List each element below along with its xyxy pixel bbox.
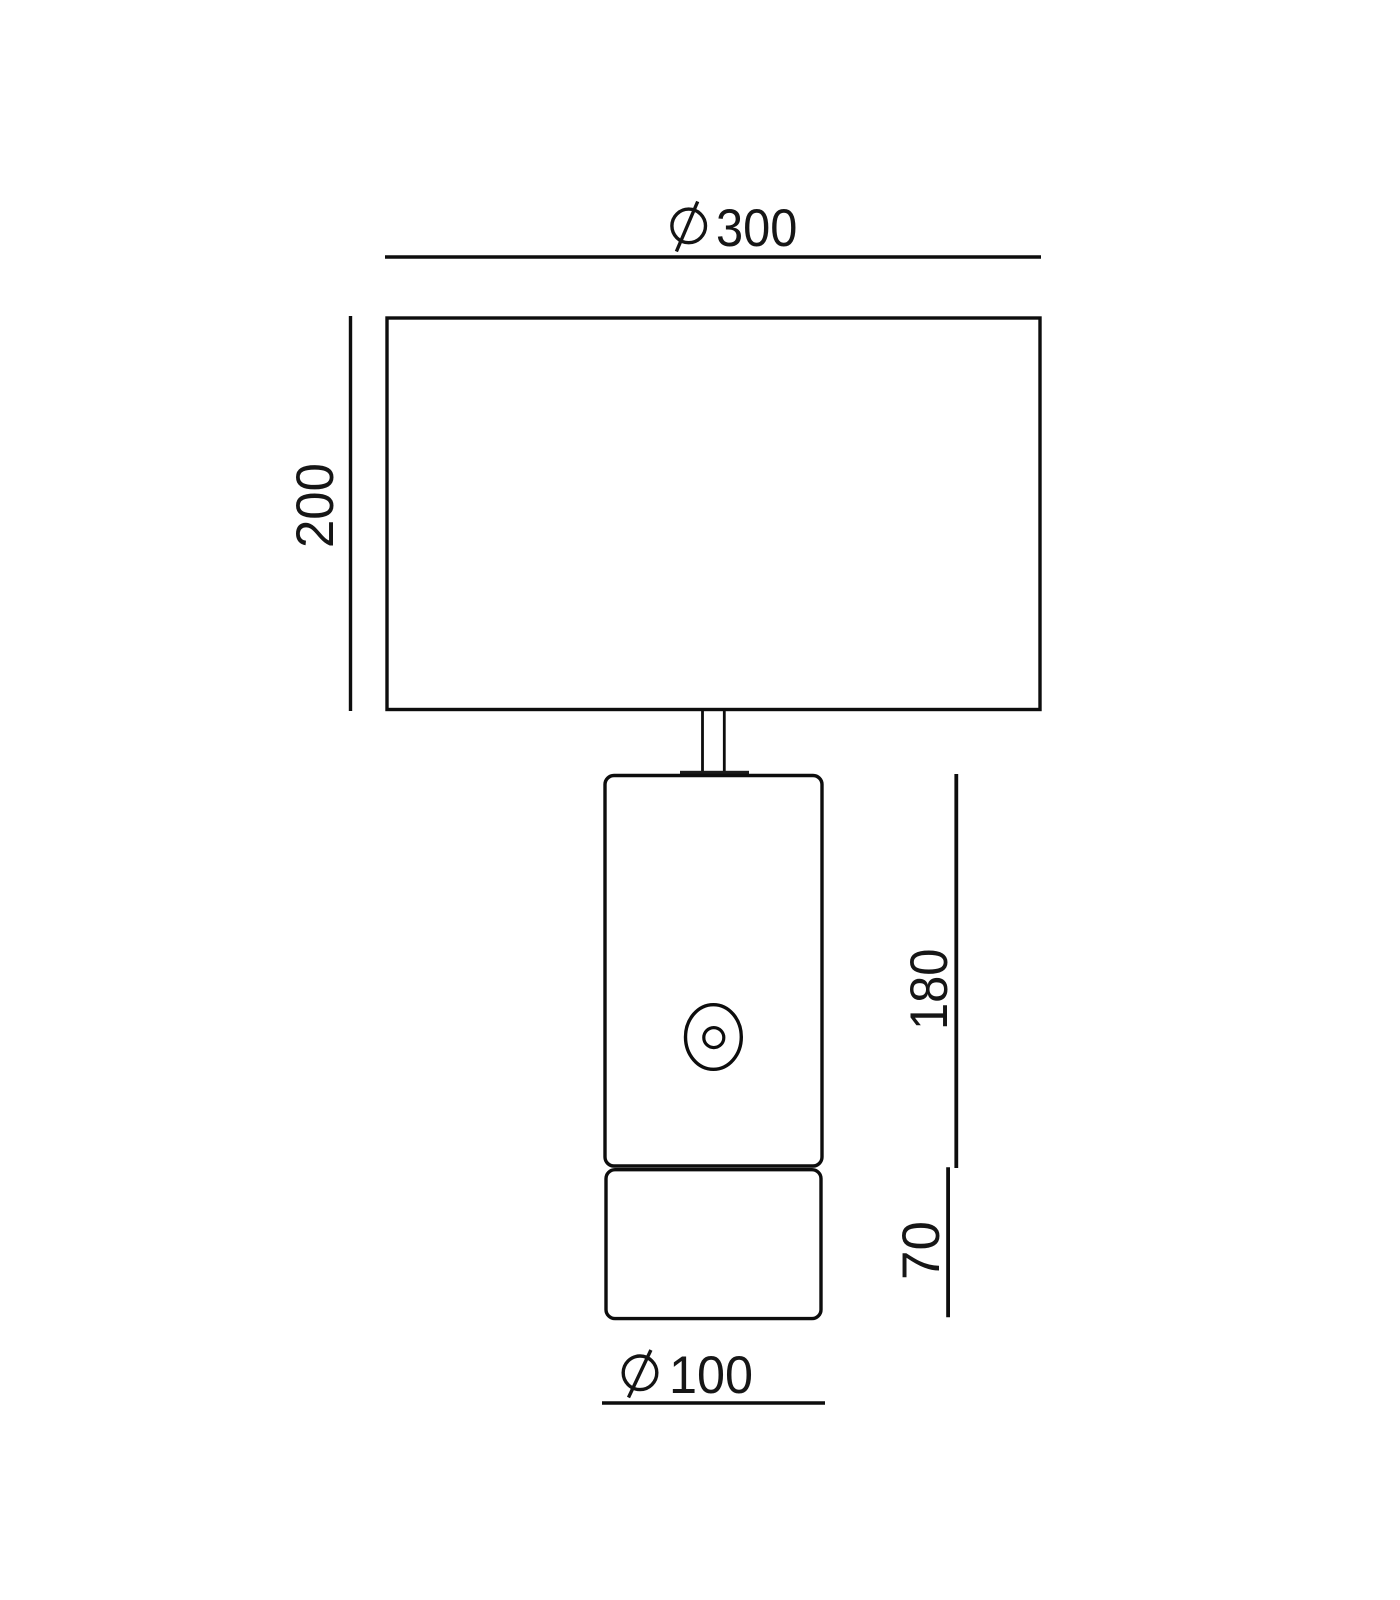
dimension line right of base (70): [946, 1167, 950, 1317]
switch outer ellipse: [686, 1005, 742, 1070]
label text 180 (rotated): [903, 948, 956, 1029]
diameter symbol of label 100: [623, 1350, 657, 1398]
stem left line: [701, 709, 704, 772]
collar cap on lamp body: [680, 771, 749, 776]
lamp base rounded rectangle: [606, 1170, 821, 1319]
stem right line: [723, 709, 726, 772]
lamp shade rectangle: [387, 318, 1040, 710]
label text 300: [716, 202, 797, 255]
dimension line top (shade width 300): [385, 255, 1041, 259]
diameter symbol of label 300: [672, 202, 706, 252]
label text 70 (rotated): [895, 1221, 948, 1280]
label text 200 (rotated): [289, 463, 342, 548]
dimension line left (shade height 200): [349, 316, 352, 711]
dimension line bottom (base width 100): [602, 1401, 825, 1405]
label text 100: [669, 1349, 753, 1402]
dimension line right of body (180): [954, 774, 958, 1168]
switch inner circle: [704, 1028, 724, 1048]
lamp body rounded rectangle: [605, 776, 822, 1167]
